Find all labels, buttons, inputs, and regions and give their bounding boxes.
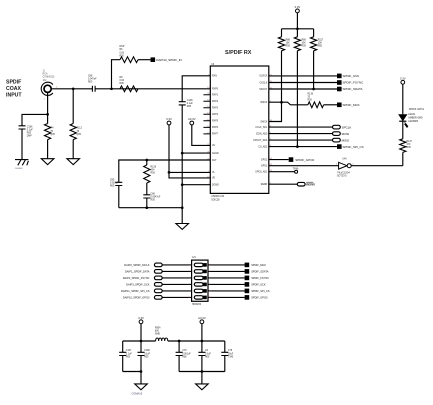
power 3.3V (pull-ups) [296,9,300,13]
junction node to DNP branch [110,87,113,90]
svg-text:SPDIF_MCK: SPDIF_MCK [343,103,360,107]
svg-text:DAIP1_SPDIF_DATA: DAIP1_SPDIF_DATA [125,270,150,274]
svg-text:DAIP10_SPDIF_GPO0: DAIP10_SPDIF_GPO0 [123,296,150,300]
junction left ground stem [140,370,143,373]
wire RERR to terminal [269,183,298,185]
svg-text:9: 9 [189,290,190,292]
power A3.3V (VA) [190,121,194,125]
wire row 1 left [162,264,191,266]
wire C79 bottom lead [178,356,180,372]
svg-text:SPDIF_SCK: SPDIF_SCK [251,283,266,287]
svg-text:7: 7 [189,284,190,286]
capacitor C75 10uF [221,352,228,355]
jumper row 6: shunt symbol [194,296,203,299]
wire U46 output to LED cathode net [351,165,403,167]
wire SDOUT to terminal [269,88,337,90]
svg-text:TP46: TP46 [293,168,299,171]
junction node input/R112 [72,87,75,90]
terminal SPDIF_FSYNC (header) [245,276,250,281]
svg-text:5: 5 [189,277,190,279]
svg-text:2: 2 [209,264,210,266]
ground (R112) [67,159,80,165]
wire C85 to filter rail [118,186,120,208]
wire filter bottom rail [119,207,182,209]
terminal SPDIF_MCK (header) [245,263,250,268]
wire R88 to RMCK net [281,51,283,102]
svg-text:SPDIF_FSYNC: SPDIF_FSYNC [343,81,365,85]
wire C168 bottom lead [140,356,142,372]
jumper row 4: shunt symbol [194,283,203,286]
svg-text:DAIP11_SPDIF_SPI_CS: DAIP11_SPDIF_SPI_CS [121,289,150,293]
wire R117 to SDATA net [313,51,315,89]
resistor R117 10K [311,37,317,51]
svg-text:MISO: MISO [342,138,350,142]
svg-text:MOSI: MOSI [342,132,350,136]
wire CS to terminal [269,146,337,148]
terminal SPDIF_SPI_CS [337,144,342,149]
terminal MISO [333,138,341,142]
svg-text:SPDIF_FSYNC: SPDIF_FSYNC [251,276,269,280]
svg-text:12: 12 [209,297,211,299]
resistor R9 0.00 (series) [120,86,138,92]
terminal SPDIF_SCK (header) [245,282,250,287]
wire R136 to terminal [324,104,337,106]
wire row 5 right [208,290,245,292]
IC unconnected RXP stub pins [203,95,210,134]
resistor R126 [144,165,150,183]
wire C167 bottom lead [122,356,124,372]
svg-text:SPDIF_SDATA: SPDIF_SDATA [251,270,269,274]
wire R4 to ground [47,140,49,159]
ferrite bead FB34 600 [156,338,168,341]
wire LED11 to R147 [402,121,404,138]
capacitor C86 0.0047uF [143,195,150,198]
wire R112 to ground [72,140,74,159]
capacitor C4 0.1uF [198,352,205,355]
wire row 2 right [208,270,245,272]
wire RXN pin to C148 [182,76,210,102]
junction A3.3V rail [201,340,204,343]
wire node to C166 [22,114,48,125]
wire C75 bottom lead [224,356,226,372]
svg-text:CGMA16: CGMA16 [132,392,143,396]
wire 3.3V to LED11 anode [402,84,404,114]
svg-text:3: 3 [189,271,190,273]
svg-text:DAIP4_SPDIF_FSYNC: DAIP4_SPDIF_FSYNC [123,276,150,280]
terminal SPDIF_SCK [337,74,342,79]
resistor R88 10K [278,37,284,51]
wire RMCK to OMCK [269,102,282,121]
wire 3.3V to pull-up bus [296,13,298,29]
svg-text:SPDIF_SPI_CS: SPDIF_SPI_CS [343,145,364,149]
wire row 6 right [208,296,245,298]
ground (R4) [41,159,54,165]
wire row 4 right [208,283,245,285]
wire R126 top lead [146,160,148,165]
wire C86 bottom lead [146,198,148,208]
wire A3.3V down to C4 [201,324,203,353]
wire DGND pin [182,184,210,186]
terminal RERR [297,182,305,186]
resistor R112 75 [70,124,76,140]
power 3.3V (LED) [401,80,405,84]
svg-text:SPDIF_MCK: SPDIF_MCK [251,263,266,267]
svg-text:SPDIF: SPDIF [6,80,21,86]
junction DGND/rail [181,183,184,186]
junction RMCK/pull-up/OMCK [280,101,283,104]
svg-text:1: 1 [189,264,190,266]
svg-text:SPCLK: SPCLK [342,125,352,129]
ground (right filter) [196,384,209,390]
wire row 6 left [162,296,191,298]
wire GPO2 to terminal [269,159,289,161]
terminal DAIP1_SPDIF_DATA [154,270,162,274]
wire R89 top lead [296,29,298,37]
terminal DAIP10_SPDIF_GPO0 [154,296,162,300]
jumper row 5: shunt symbol [194,289,203,292]
terminal SPDIF_GPO0 (header) [245,295,250,300]
svg-text:4: 4 [209,271,210,273]
wire node to R4 [47,114,49,123]
wire R89 to CS net [296,51,298,147]
junction 3.3V rail [140,340,143,343]
junction FILT/R126 [145,159,148,162]
test point TP46 (no-connect circle) [295,170,298,173]
wire A3.3V to VA pin [192,125,211,146]
wire 3.3V to VD pin [169,125,210,178]
wire 3.3V down to C168 [140,324,142,353]
connector J1 RCA jack [41,82,53,95]
svg-text:3.3V: 3.3V [295,5,301,9]
capacitor C88 (series input cap) [92,86,95,92]
header J24 body [192,260,208,301]
wire right bottom rail [179,371,225,373]
wire C88 to IC RXP pin [95,88,210,90]
ground (left filter) [135,384,148,390]
wire row 5 left [162,290,191,292]
wire CDIN to MOSI [269,133,333,135]
wire FILT pin to C85 [119,160,211,182]
IC U9 CS8416 S/PDIF receiver body [210,66,268,193]
svg-text:SPDIF_SPI_CS: SPDIF_SPI_CS [251,289,270,293]
svg-text:3.3V: 3.3V [138,316,144,320]
wire A3.3V rail [168,340,225,342]
wire stem to right ground [201,372,203,384]
svg-text:11: 11 [188,297,190,299]
wire R6 to terminal [138,59,150,61]
junction pull-up bus [296,27,299,30]
terminal DAIP4_SPDIF_FSYNC [154,276,162,280]
wire R126 to C86 [146,183,148,195]
inverter U46 74LVC1G04 [339,162,352,169]
wire pull-up bus [282,28,314,30]
junction C79 top [178,340,181,343]
wire row 4 left [162,283,191,285]
power 3.3V (VL) [167,121,171,125]
wire left bottom rail [123,371,141,373]
terminal SPDIF_SDATA [337,87,342,92]
junction R89/CS [296,145,299,148]
svg-text:CHGND: CHGND [15,168,23,170]
junction right ground stem [201,370,204,373]
svg-text:3.3V: 3.3V [166,117,172,121]
wire row 3 left [162,277,191,279]
wire R88 top lead [281,29,283,37]
terminal SPDIF_SPI_CS (header) [245,289,250,294]
jumper row 2: shunt symbol [194,270,203,273]
junction AGND/rail [181,152,184,155]
svg-text:SPDIF_GPO0: SPDIF_GPO0 [251,296,268,300]
svg-text:10: 10 [209,290,211,292]
svg-text:SPDIF GPO1: SPDIF GPO1 [409,107,425,111]
capacitor C85 0.001uF [115,182,122,185]
svg-text:3.3V: 3.3V [400,77,406,81]
wire stem to left ground [140,372,142,384]
wire C4 bottom lead [201,356,203,372]
wire node up to R6 DNP [112,60,121,89]
svg-text:S/PDIF RX: S/PDIF RX [225,50,252,56]
wire J1 to C88 [51,88,92,90]
terminal DAIP2_SPDIF_MCLK [154,263,162,267]
svg-text:RERR: RERR [306,182,315,186]
svg-text:8: 8 [209,284,210,286]
wire CDOUT to MISO [269,139,333,141]
terminal DAIP11_SPDIF_SPI_CS [154,289,162,293]
wire ground rail (analog) [181,105,183,224]
svg-text:DAIP3_SPDIF_SCK: DAIP3_SPDIF_SCK [126,283,150,287]
wire C167 top lead [122,341,124,352]
wire J1 shield stem [47,92,49,114]
capacitor C167 0.1uF [119,352,126,355]
svg-text:COAX: COAX [6,86,22,92]
wire GPO1 to inverter U46 [269,165,339,167]
wire C79 top lead [178,341,180,352]
power A3.3V (filter) [200,320,204,324]
capacitor C148 0.1uF [179,102,186,105]
terminal SPCLK [333,125,341,129]
junction C86/rail [145,206,148,209]
resistor R136 33 [308,102,324,108]
wire to VL pin [169,171,210,173]
svg-text:HDR2X6: HDR2X6 [192,304,202,306]
wire GPO0 to test point [269,171,295,173]
terminal SPDIF_FSYNC [337,80,342,85]
svg-text:DAIP2_SPDIF_MCLK: DAIP2_SPDIF_MCLK [124,263,149,267]
jumper row 1: shunt symbol [194,263,203,266]
svg-text:INPUT: INPUT [6,92,22,98]
wire RMCK to R136 [269,102,308,105]
svg-text:SPDIF_SDATA: SPDIF_SDATA [343,87,363,91]
terminal SPDIF_MCK [337,103,342,108]
wire row 2 left [162,270,191,272]
ground (IC) [176,224,189,230]
wire R117 top lead [313,29,315,37]
power 3.3V (filter) [139,320,143,324]
junction filter rail [181,206,184,209]
capacitor C166 0.1uF DNP [19,126,26,129]
wire C166 to chassis ground [21,129,23,160]
capacitor C168 0.1uF [138,352,145,355]
terminal MOSI [333,132,341,136]
resistor R89 10K [294,37,300,51]
svg-text:SPDIF_SCK: SPDIF_SCK [343,74,360,78]
wire left 3.3V rail [123,340,156,342]
terminal SPDIF_SDATA (header) [245,269,250,274]
svg-text:DAIP43_SPDIF_IN: DAIP43_SPDIF_IN [156,58,182,62]
wire CCLK to SPCLK [269,126,333,128]
resistor R6 0.00 DNP [120,57,138,63]
wire OLRCK to terminal [269,75,337,77]
svg-text:6: 6 [209,277,210,279]
jumper row 3: shunt symbol [194,276,203,279]
terminal DAIP3_SPDIF_SCK [154,283,162,287]
junction VL branch [168,171,171,174]
wire AGND pin [182,152,210,154]
junction shield node [46,113,49,116]
wire R147 to U46 output [402,152,404,165]
svg-text:A3.3V: A3.3V [188,117,196,121]
svg-text:A3.3V: A3.3V [198,316,206,320]
wire row 1 right [208,264,245,266]
svg-text:U46: U46 [342,157,347,160]
terminal DAIP43_SPDIF_IN [151,57,156,62]
resistor R4 75 [45,124,51,140]
resistor R147 470 [400,139,406,153]
chassis ground symbol [15,160,28,166]
wire OSCLK to terminal [269,82,337,84]
LED LED11 AMBER-SMD [399,115,408,128]
capacitor C79 0.001uF [176,352,183,355]
terminal SPDIF_GPO0 [289,157,294,162]
junction R117/SDATA [312,88,315,91]
wire node to R112 [72,89,74,124]
svg-text:SPDIF_GPO0: SPDIF_GPO0 [295,158,314,162]
wire row 3 right [208,277,245,279]
wire C75 top lead [224,341,226,352]
